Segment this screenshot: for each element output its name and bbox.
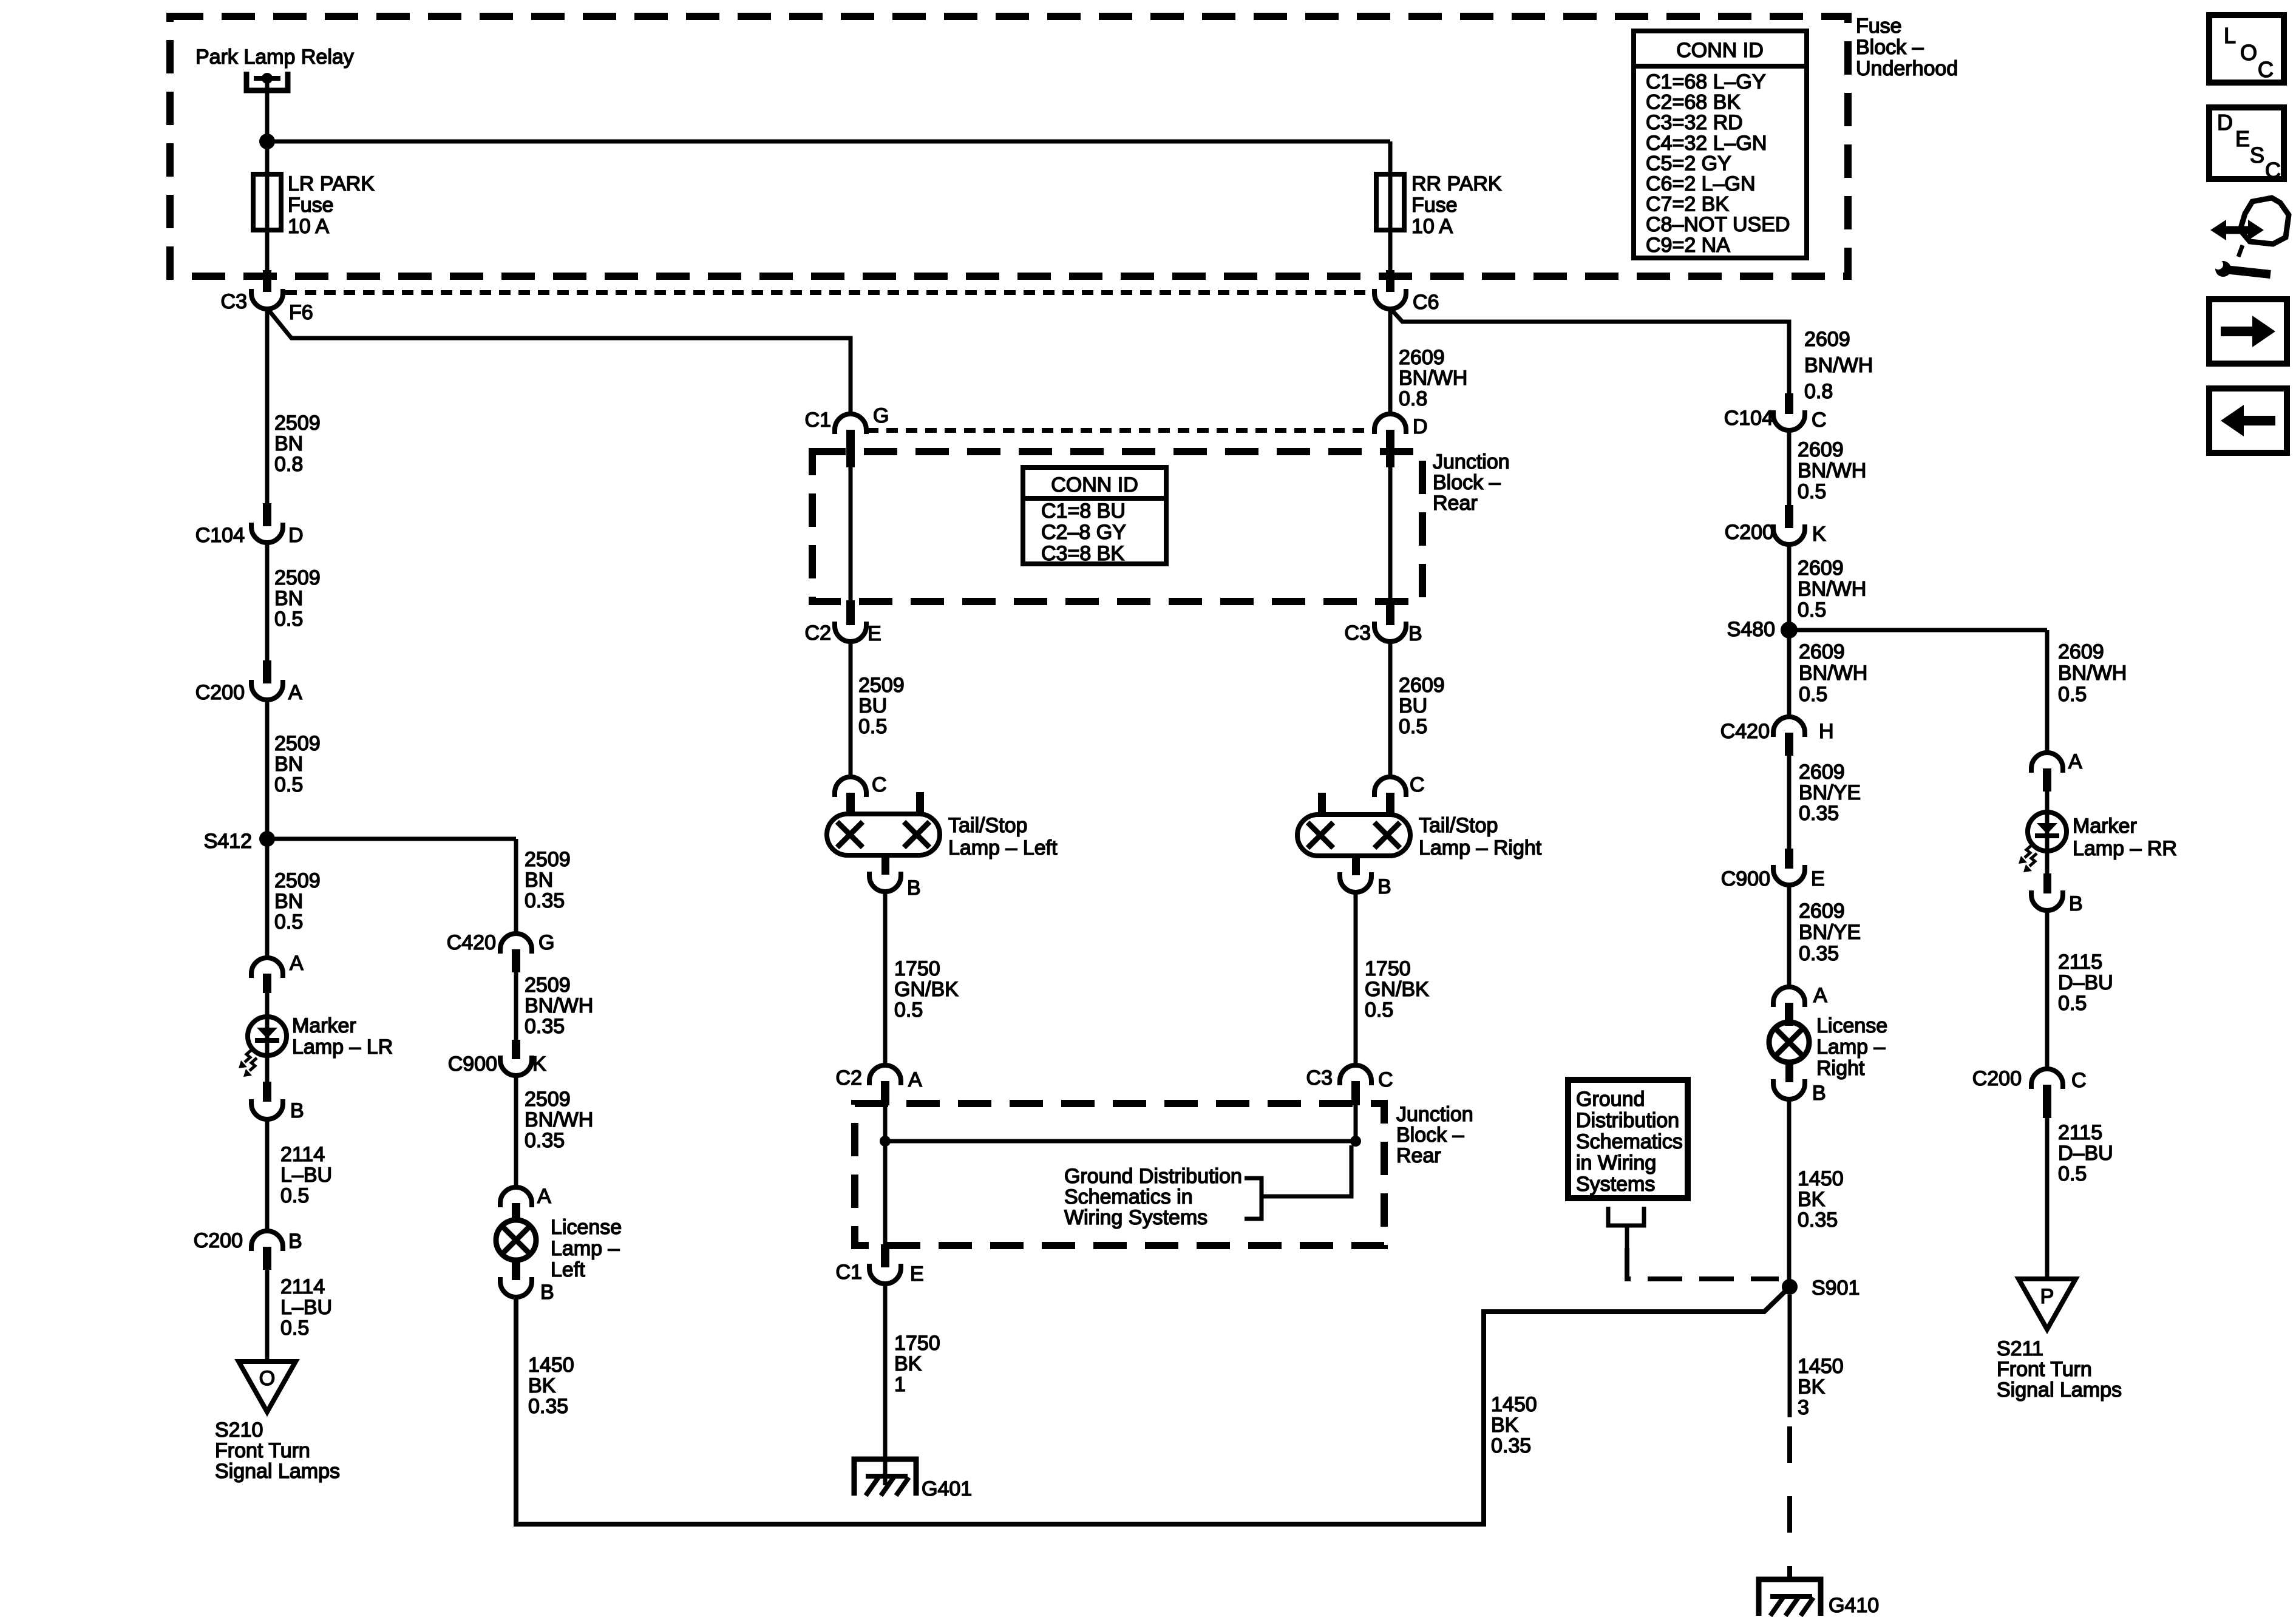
svg-text:C: C bbox=[1812, 408, 1827, 432]
svg-text:BK: BK bbox=[1798, 1188, 1826, 1211]
svg-text:BN: BN bbox=[274, 890, 303, 913]
svg-text:Systems: Systems bbox=[1576, 1173, 1655, 1196]
svg-text:2609: 2609 bbox=[1799, 640, 1845, 663]
svg-text:BN: BN bbox=[274, 587, 303, 610]
svg-text:0.35: 0.35 bbox=[1491, 1434, 1531, 1457]
svg-text:B: B bbox=[290, 1099, 304, 1122]
svg-text:GN/BK: GN/BK bbox=[894, 978, 959, 1001]
svg-text:K: K bbox=[1812, 523, 1826, 546]
svg-text:C1: C1 bbox=[805, 408, 831, 432]
svg-text:0.5: 0.5 bbox=[2058, 992, 2087, 1015]
svg-text:A: A bbox=[908, 1068, 922, 1091]
svg-text:0.5: 0.5 bbox=[858, 715, 887, 738]
svg-text:0.5: 0.5 bbox=[274, 608, 303, 631]
svg-text:BN/YE: BN/YE bbox=[1799, 921, 1861, 944]
svg-text:BN/WH: BN/WH bbox=[525, 994, 593, 1017]
svg-text:G410: G410 bbox=[1829, 1594, 1879, 1617]
svg-text:C: C bbox=[2265, 158, 2281, 183]
svg-text:Signal Lamps: Signal Lamps bbox=[215, 1460, 340, 1483]
svg-text:S412: S412 bbox=[204, 830, 252, 853]
svg-text:2114: 2114 bbox=[280, 1275, 325, 1298]
svg-text:P: P bbox=[2040, 1285, 2054, 1308]
svg-text:K: K bbox=[532, 1053, 546, 1076]
svg-text:Fuse: Fuse bbox=[1411, 194, 1458, 217]
svg-text:License: License bbox=[1816, 1014, 1887, 1037]
svg-text:C900: C900 bbox=[448, 1053, 497, 1076]
svg-text:C1=68 L–GY: C1=68 L–GY bbox=[1646, 70, 1766, 93]
svg-text:BN/WH: BN/WH bbox=[1804, 354, 1873, 377]
svg-text:O: O bbox=[259, 1367, 275, 1390]
svg-text:Rear: Rear bbox=[1396, 1144, 1441, 1167]
svg-text:G: G bbox=[873, 404, 889, 427]
svg-text:G: G bbox=[538, 931, 554, 954]
svg-text:0.5: 0.5 bbox=[280, 1184, 309, 1207]
svg-text:2115: 2115 bbox=[2058, 1121, 2102, 1144]
svg-text:D: D bbox=[2217, 110, 2233, 135]
svg-text:C7=2 BK: C7=2 BK bbox=[1646, 193, 1729, 216]
svg-text:2509: 2509 bbox=[274, 732, 321, 755]
svg-text:Marker: Marker bbox=[2073, 815, 2137, 838]
svg-text:BK: BK bbox=[1491, 1414, 1519, 1437]
svg-text:2509: 2509 bbox=[858, 674, 905, 697]
svg-text:BN/YE: BN/YE bbox=[1799, 781, 1861, 804]
svg-text:0.35: 0.35 bbox=[1798, 1209, 1838, 1232]
svg-text:B: B bbox=[1377, 875, 1391, 898]
svg-text:Signal Lamps: Signal Lamps bbox=[1997, 1378, 2122, 1402]
svg-text:C2: C2 bbox=[805, 622, 831, 645]
svg-text:BN: BN bbox=[274, 432, 303, 455]
svg-text:C900: C900 bbox=[1721, 867, 1770, 890]
svg-text:0.5: 0.5 bbox=[2058, 683, 2087, 706]
svg-text:Wiring Systems: Wiring Systems bbox=[1064, 1206, 1207, 1229]
svg-text:BN/WH: BN/WH bbox=[525, 1108, 593, 1131]
svg-text:0.35: 0.35 bbox=[528, 1395, 568, 1418]
svg-text:Underhood: Underhood bbox=[1856, 57, 1958, 80]
svg-text:CONN ID: CONN ID bbox=[1051, 473, 1138, 497]
svg-text:Tail/Stop: Tail/Stop bbox=[1419, 814, 1498, 837]
svg-text:S211: S211 bbox=[1997, 1337, 2043, 1360]
svg-text:Lamp – Left: Lamp – Left bbox=[948, 836, 1058, 859]
svg-text:C: C bbox=[2258, 57, 2274, 82]
svg-text:0.8: 0.8 bbox=[1399, 387, 1427, 410]
svg-text:B: B bbox=[907, 876, 921, 900]
svg-text:C2: C2 bbox=[836, 1066, 862, 1090]
svg-text:C: C bbox=[1410, 773, 1425, 796]
svg-text:in Wiring: in Wiring bbox=[1576, 1151, 1656, 1175]
svg-text:BK: BK bbox=[528, 1374, 556, 1397]
svg-text:0.5: 0.5 bbox=[1798, 480, 1826, 503]
svg-text:C104: C104 bbox=[195, 524, 245, 547]
svg-text:O: O bbox=[2240, 40, 2257, 65]
svg-text:E: E bbox=[910, 1263, 924, 1286]
svg-text:License: License bbox=[551, 1216, 622, 1239]
svg-text:C3: C3 bbox=[221, 290, 247, 313]
svg-text:Distribution: Distribution bbox=[1576, 1109, 1679, 1132]
svg-text:0.5: 0.5 bbox=[1799, 683, 1827, 706]
svg-text:1450: 1450 bbox=[1798, 1167, 1844, 1190]
svg-text:Marker: Marker bbox=[292, 1014, 356, 1037]
svg-text:BU: BU bbox=[858, 694, 887, 717]
svg-text:Rear: Rear bbox=[1433, 492, 1478, 515]
svg-text:S901: S901 bbox=[1812, 1276, 1860, 1300]
svg-text:C6=2 L–GN: C6=2 L–GN bbox=[1646, 172, 1756, 195]
svg-text:0.35: 0.35 bbox=[525, 1015, 565, 1038]
svg-text:BU: BU bbox=[1399, 694, 1427, 717]
svg-text:0.5: 0.5 bbox=[1365, 998, 1393, 1022]
svg-text:LR PARK: LR PARK bbox=[288, 172, 375, 195]
svg-text:2509: 2509 bbox=[274, 869, 321, 892]
svg-text:2114: 2114 bbox=[280, 1143, 325, 1166]
svg-text:Block –: Block – bbox=[1856, 36, 1924, 59]
svg-text:0.5: 0.5 bbox=[2058, 1162, 2087, 1185]
svg-text:Lamp –: Lamp – bbox=[1816, 1036, 1885, 1059]
svg-text:0.5: 0.5 bbox=[274, 773, 303, 796]
svg-text:2609: 2609 bbox=[1799, 761, 1845, 784]
svg-text:2115: 2115 bbox=[2058, 951, 2102, 974]
svg-text:Block –: Block – bbox=[1433, 471, 1501, 494]
svg-text:10 A: 10 A bbox=[288, 215, 329, 238]
svg-text:C200: C200 bbox=[1725, 521, 1774, 544]
svg-text:1750: 1750 bbox=[894, 1332, 940, 1355]
svg-text:Left: Left bbox=[551, 1258, 585, 1281]
svg-text:B: B bbox=[1408, 622, 1422, 645]
svg-text:2609: 2609 bbox=[1399, 674, 1445, 697]
svg-text:BN/WH: BN/WH bbox=[1798, 578, 1866, 601]
svg-text:C200: C200 bbox=[194, 1229, 243, 1252]
svg-text:Front Turn: Front Turn bbox=[1997, 1358, 2092, 1381]
svg-text:S210: S210 bbox=[215, 1419, 263, 1442]
svg-text:0.5: 0.5 bbox=[1399, 715, 1427, 738]
svg-text:2609: 2609 bbox=[1399, 346, 1445, 369]
svg-text:Junction: Junction bbox=[1433, 450, 1510, 473]
svg-text:Lamp – LR: Lamp – LR bbox=[292, 1036, 393, 1059]
svg-text:1450: 1450 bbox=[1798, 1355, 1844, 1378]
svg-text:RR PARK: RR PARK bbox=[1411, 172, 1502, 195]
svg-text:C3: C3 bbox=[1306, 1066, 1333, 1090]
svg-text:1750: 1750 bbox=[894, 957, 940, 980]
svg-text:Ground Distribution: Ground Distribution bbox=[1064, 1165, 1242, 1188]
svg-text:0.5: 0.5 bbox=[1798, 598, 1826, 622]
svg-text:S: S bbox=[2250, 143, 2264, 168]
svg-text:2609: 2609 bbox=[1798, 557, 1844, 580]
svg-text:D: D bbox=[1413, 415, 1428, 438]
svg-text:F6: F6 bbox=[289, 301, 313, 324]
svg-text:C1=8 BU: C1=8 BU bbox=[1041, 500, 1126, 523]
svg-text:1450: 1450 bbox=[1491, 1393, 1537, 1416]
svg-text:C200: C200 bbox=[1972, 1067, 2022, 1090]
svg-text:BN: BN bbox=[274, 753, 303, 776]
svg-text:0.8: 0.8 bbox=[1804, 380, 1833, 403]
svg-text:BK: BK bbox=[894, 1352, 922, 1375]
svg-text:2509: 2509 bbox=[274, 566, 321, 589]
svg-text:C6: C6 bbox=[1413, 291, 1439, 314]
svg-text:Lamp – RR: Lamp – RR bbox=[2073, 837, 2177, 860]
svg-text:S480: S480 bbox=[1727, 618, 1775, 641]
svg-text:A: A bbox=[290, 952, 304, 975]
svg-text:B: B bbox=[2069, 892, 2083, 915]
svg-text:C2=68 BK: C2=68 BK bbox=[1646, 91, 1741, 114]
svg-text:C104: C104 bbox=[1724, 407, 1773, 430]
svg-text:A: A bbox=[288, 681, 302, 704]
svg-text:BN: BN bbox=[525, 869, 553, 892]
svg-text:C3=8 BK: C3=8 BK bbox=[1041, 542, 1124, 565]
svg-text:2509: 2509 bbox=[525, 974, 571, 997]
svg-text:C420: C420 bbox=[447, 931, 496, 954]
svg-text:Block –: Block – bbox=[1396, 1124, 1464, 1147]
svg-text:1450: 1450 bbox=[528, 1354, 574, 1377]
svg-text:Schematics: Schematics bbox=[1576, 1130, 1683, 1153]
svg-text:0.5: 0.5 bbox=[894, 998, 923, 1022]
svg-text:C9=2 NA: C9=2 NA bbox=[1646, 234, 1730, 257]
svg-text:L–BU: L–BU bbox=[280, 1296, 332, 1319]
svg-text:H: H bbox=[1819, 720, 1834, 743]
svg-text:2509: 2509 bbox=[274, 412, 321, 435]
svg-text:C8–NOT USED: C8–NOT USED bbox=[1646, 213, 1790, 236]
svg-text:Junction: Junction bbox=[1396, 1103, 1473, 1126]
svg-text:0.35: 0.35 bbox=[1799, 942, 1839, 965]
svg-text:A: A bbox=[2068, 750, 2082, 773]
svg-text:C3=32 RD: C3=32 RD bbox=[1646, 111, 1743, 134]
svg-text:C3: C3 bbox=[1345, 622, 1371, 645]
svg-text:2609: 2609 bbox=[2058, 640, 2104, 663]
svg-text:C: C bbox=[2071, 1069, 2087, 1092]
svg-text:D–BU: D–BU bbox=[2058, 1142, 2113, 1165]
svg-text:C4=32 L–GN: C4=32 L–GN bbox=[1646, 132, 1767, 155]
svg-text:BN/WH: BN/WH bbox=[1399, 367, 1467, 390]
svg-text:1: 1 bbox=[894, 1373, 906, 1396]
svg-text:Lamp – Right: Lamp – Right bbox=[1419, 836, 1542, 859]
svg-text:Park Lamp Relay: Park Lamp Relay bbox=[195, 46, 354, 69]
svg-text:0.35: 0.35 bbox=[525, 889, 565, 912]
svg-text:Right: Right bbox=[1816, 1057, 1865, 1080]
svg-text:B: B bbox=[540, 1281, 554, 1304]
svg-text:GN/BK: GN/BK bbox=[1365, 978, 1429, 1001]
svg-text:C200: C200 bbox=[195, 681, 245, 704]
svg-text:Tail/Stop: Tail/Stop bbox=[948, 814, 1027, 837]
svg-text:BN/WH: BN/WH bbox=[2058, 662, 2127, 685]
svg-text:C: C bbox=[1378, 1068, 1393, 1091]
svg-text:2609: 2609 bbox=[1804, 328, 1850, 351]
svg-text:C5=2 GY: C5=2 GY bbox=[1646, 152, 1731, 175]
svg-text:BN/WH: BN/WH bbox=[1799, 662, 1867, 685]
svg-text:Fuse: Fuse bbox=[1856, 15, 1902, 38]
svg-text:B: B bbox=[1812, 1082, 1826, 1105]
svg-text:D–BU: D–BU bbox=[2058, 971, 2113, 994]
svg-text:C1: C1 bbox=[836, 1261, 862, 1284]
svg-text:0.35: 0.35 bbox=[525, 1129, 565, 1152]
svg-text:Lamp –: Lamp – bbox=[551, 1237, 619, 1260]
svg-text:C: C bbox=[872, 773, 887, 796]
svg-text:2509: 2509 bbox=[525, 848, 571, 871]
svg-text:0.8: 0.8 bbox=[274, 453, 303, 476]
svg-text:Ground: Ground bbox=[1576, 1088, 1645, 1111]
svg-text:0.5: 0.5 bbox=[280, 1317, 309, 1340]
svg-text:BN/WH: BN/WH bbox=[1798, 459, 1866, 483]
svg-text:Fuse: Fuse bbox=[288, 194, 334, 217]
svg-text:Front Turn: Front Turn bbox=[215, 1439, 310, 1462]
svg-text:A: A bbox=[1813, 984, 1827, 1007]
svg-text:Schematics in: Schematics in bbox=[1064, 1185, 1193, 1209]
svg-text:CONN ID: CONN ID bbox=[1676, 39, 1764, 62]
svg-text:BK: BK bbox=[1798, 1375, 1826, 1398]
svg-text:2609: 2609 bbox=[1799, 900, 1845, 923]
svg-text:C2–8 GY: C2–8 GY bbox=[1041, 521, 1126, 544]
svg-text:E: E bbox=[868, 622, 881, 645]
svg-text:B: B bbox=[288, 1230, 302, 1253]
svg-text:C420: C420 bbox=[1720, 720, 1770, 743]
svg-text:2509: 2509 bbox=[525, 1088, 571, 1111]
svg-text:2609: 2609 bbox=[1798, 438, 1844, 461]
svg-text:A: A bbox=[537, 1185, 551, 1208]
svg-text:L: L bbox=[2224, 23, 2236, 48]
svg-text:3: 3 bbox=[1798, 1396, 1809, 1419]
svg-text:0.35: 0.35 bbox=[1799, 802, 1839, 825]
svg-text:L–BU: L–BU bbox=[280, 1164, 332, 1187]
svg-text:E: E bbox=[2235, 126, 2250, 151]
svg-text:E: E bbox=[1811, 867, 1825, 890]
svg-text:1750: 1750 bbox=[1365, 957, 1411, 980]
svg-text:10 A: 10 A bbox=[1411, 215, 1453, 238]
svg-text:D: D bbox=[288, 524, 304, 547]
svg-text:G401: G401 bbox=[922, 1477, 972, 1500]
svg-text:0.5: 0.5 bbox=[274, 910, 303, 934]
